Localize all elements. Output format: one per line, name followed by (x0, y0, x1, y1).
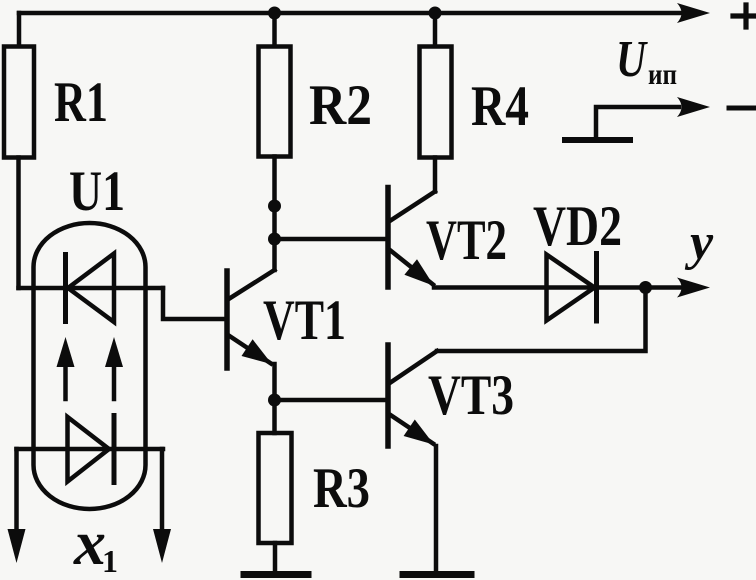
transistor VT2 (388, 188, 435, 288)
wire U1 output jog to VT1 base (163, 288, 225, 319)
ground VT3 emitter (403, 571, 471, 578)
light arrow 2 (up) (105, 337, 123, 399)
svg-text:VT2: VT2 (426, 209, 507, 272)
wire VT1 emitter node to VT3 base (275, 398, 387, 403)
wire left drop from rail to R1 (17, 13, 22, 46)
node R2 lower dot A (268, 200, 281, 213)
wire R4 bottom to VT2 collector (433, 158, 438, 192)
label + (positive supply) (733, 5, 756, 27)
wire top supply rail (19, 11, 694, 16)
wire dot B to VT2 base (275, 237, 387, 242)
node output junction (639, 281, 652, 294)
resistor R4 (420, 47, 452, 158)
svg-text:U1: U1 (69, 160, 125, 223)
wire rail drop to R4 (433, 13, 438, 46)
svg-text:R3: R3 (313, 457, 370, 520)
label - (negative supply) (729, 106, 756, 111)
wire LED horizontal lead (17, 447, 164, 452)
LED cathode bar (112, 416, 117, 483)
wire photodiode horizontal lead (19, 286, 164, 291)
wire R2 bottom to VT1 collector (272, 157, 277, 271)
wire Uип bottom bar (565, 137, 630, 143)
transistor VT3 (388, 345, 437, 446)
svg-text:R2: R2 (309, 74, 372, 137)
resistor R3 (259, 433, 292, 543)
svg-text:R4: R4 (471, 75, 529, 138)
node rail-R2 junction (268, 7, 281, 20)
resistor R1 (4, 47, 34, 158)
svg-text:VD2: VD2 (533, 195, 622, 258)
LED of U1 (points right) (68, 417, 110, 482)
svg-text:R1: R1 (54, 71, 108, 134)
svg-text:ип: ип (648, 58, 677, 91)
photodiode cathode bar (63, 255, 68, 322)
node R2 lower dot B (268, 233, 281, 246)
wire rail drop to R2 (272, 13, 277, 46)
svg-text:1: 1 (102, 543, 118, 579)
svg-text:U: U (616, 31, 649, 88)
light arrow 1 (up) (57, 337, 75, 399)
optocoupler U1 body (34, 223, 146, 509)
wire VT3 emitter drop (434, 446, 439, 572)
photodiode of U1 (points left) (68, 254, 114, 323)
arrowhead x1 right (down) (153, 529, 171, 563)
transistor VT1 (227, 270, 275, 368)
ground R3 (244, 571, 308, 578)
node VT1 emitter / R3 junction (268, 394, 281, 407)
wire VT1 emitter drop (272, 364, 277, 400)
svg-text:VT1: VT1 (263, 289, 346, 352)
wire arrow to + terminal (677, 3, 710, 23)
wire R3 bottom to ground (273, 543, 278, 572)
label Uип supply voltage (616, 31, 677, 91)
node rail-R4 junction (429, 7, 442, 20)
wire input x1 right lead (160, 449, 165, 531)
wire feedback from output node to VT3 collector (437, 288, 646, 352)
wire VT2 emitter to output y (434, 285, 694, 290)
wire Uип arrow to minus terminal (596, 97, 710, 139)
wire input x1 left lead (14, 449, 19, 531)
arrowhead output y (677, 278, 710, 298)
diode VD2 cathode bar (594, 254, 599, 322)
wire R1 bottom to optocoupler anode (16, 158, 21, 289)
arrowhead x1 left (down) (8, 529, 26, 563)
label x1 (73, 507, 118, 579)
wire node to R3 top (272, 400, 277, 433)
svg-text:VT3: VT3 (428, 364, 514, 427)
diode VD2 (547, 255, 595, 321)
resistor R2 (259, 47, 291, 157)
